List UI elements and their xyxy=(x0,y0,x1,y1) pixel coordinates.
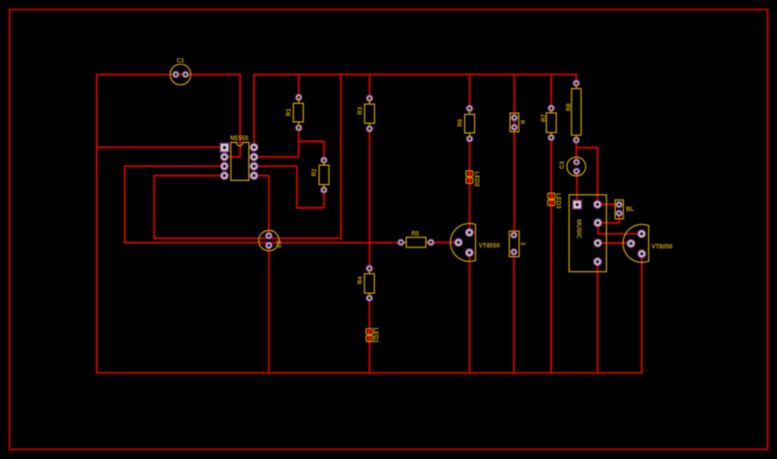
resistor R5 xyxy=(398,231,434,247)
wire R6 top to bus xyxy=(469,75,471,109)
pin 3 xyxy=(594,219,602,227)
resistor R4 xyxy=(358,265,374,301)
wire NE555 pin7 to R1 bottom xyxy=(254,128,299,157)
wire MOSC pad1 to BL top pad xyxy=(598,203,620,205)
svg-text:R3: R3 xyxy=(358,106,364,114)
wire NE555 pin5 to C2 top pad xyxy=(254,176,269,236)
resistor R7 xyxy=(542,105,557,140)
wire R8 bottom to C3 top pad xyxy=(575,140,577,162)
svg-text:VT8550: VT8550 xyxy=(479,243,501,249)
pin 8 xyxy=(250,144,258,152)
wire 3 bottom pad to bottom bus xyxy=(513,252,515,373)
wire NE555 pin4 loop to C2 top line and riser to top bus xyxy=(154,75,341,239)
pin square xyxy=(573,201,581,209)
wire VT8550 emitter to bottom bus xyxy=(469,253,471,373)
svg-text:R1: R1 xyxy=(286,108,292,116)
svg-text:BL: BL xyxy=(626,207,634,213)
resistor R3 xyxy=(358,95,374,132)
wire MOSC pad3 to VT8050 left pad xyxy=(598,242,631,244)
pin 6 xyxy=(250,162,258,170)
svg-text:MUSIC: MUSIC xyxy=(575,219,581,239)
wire branch R1 bottom to R2 top xyxy=(299,141,324,160)
wire NE555 pin6 to R2 bottom xyxy=(254,166,324,208)
resistor R8 xyxy=(567,80,582,143)
svg-text:VT8050: VT8050 xyxy=(652,245,674,251)
LED LED2 xyxy=(466,171,479,188)
svg-text:NE555: NE555 xyxy=(230,136,249,142)
pin 3 xyxy=(221,162,229,170)
wire MOSC pad2 to VT8050 base xyxy=(598,223,642,234)
wire vcc drop into NE555 pin2 row xyxy=(224,75,240,157)
svg-text:K: K xyxy=(519,120,525,125)
wire R3 top to bus xyxy=(369,75,371,99)
pin 4 xyxy=(594,239,602,247)
wire BL bottom pad to MOSC pad2 xyxy=(598,213,619,223)
jumper 3 xyxy=(509,231,525,257)
pin 2 xyxy=(594,201,602,209)
pin 4 xyxy=(221,172,229,180)
wire NE555 pin3 to C2 bottom pad and R5 left pad xyxy=(125,166,401,242)
wire C3 bottom to MOSC square pad xyxy=(576,171,578,204)
connector K xyxy=(510,113,525,132)
resistor R1 xyxy=(286,94,303,130)
svg-text:R5: R5 xyxy=(411,231,419,237)
wire branch R8 bottom to MOSC pad1 xyxy=(576,148,597,205)
svg-text:LED3: LED3 xyxy=(555,193,561,209)
wire MOSC pad4 to bottom bus xyxy=(597,262,599,373)
svg-text:R2: R2 xyxy=(312,168,318,176)
wire R1 top to bus xyxy=(298,75,300,98)
svg-text:R7: R7 xyxy=(542,114,548,122)
transistor Q2 VT8050 xyxy=(623,224,673,262)
pin 1 xyxy=(220,144,228,152)
wire C2 bottom pad to bottom bus xyxy=(268,245,270,372)
svg-text:R8: R8 xyxy=(567,103,573,111)
svg-text:C1: C1 xyxy=(177,59,185,65)
wire GND rail: top-left bus, left rail, bottom bus, right end up to VT8050 emitter xyxy=(97,75,642,373)
pin 5 xyxy=(250,172,258,180)
wire R4 bottom through LED1 to bottom bus xyxy=(368,298,370,373)
svg-text:LED1: LED1 xyxy=(372,328,378,344)
wire R6 bottom through LED2 to VT8550 collector xyxy=(469,139,471,233)
pin 2 xyxy=(221,153,229,161)
wire NE555 pin1 to left rail xyxy=(97,146,225,148)
resistor R2 xyxy=(312,157,329,193)
svg-text:R4: R4 xyxy=(358,276,364,284)
capacitor C3 xyxy=(560,157,586,176)
capacitor C2 xyxy=(259,230,281,250)
svg-text:C3: C3 xyxy=(560,161,566,169)
wire K column from bus through K pads to 3 top pad xyxy=(513,75,515,236)
LED LED3 xyxy=(548,193,561,209)
wire R3 bottom to R4 top xyxy=(369,129,371,269)
wire NE555 pin8 riser and top bus segment 2 to R8 top xyxy=(254,75,576,148)
wire R5 right pad to VT8550 base xyxy=(431,242,459,244)
IC MUSIC chip MOSC xyxy=(569,195,606,272)
svg-text:LED2: LED2 xyxy=(473,172,479,188)
svg-text:C2: C2 xyxy=(274,240,280,248)
svg-text:R6: R6 xyxy=(458,118,464,126)
wire R7 top to bus xyxy=(550,75,552,109)
buzzer BL xyxy=(615,200,634,219)
transistor Q1 VT8550 xyxy=(450,223,500,261)
wire R7 bottom through LED3 to bottom bus xyxy=(550,138,552,373)
pin 5 xyxy=(594,258,602,266)
LED LED1 xyxy=(366,328,378,344)
capacitor C1 xyxy=(170,59,191,85)
pin 7 xyxy=(250,153,258,161)
resistor R6 xyxy=(458,105,475,141)
op-amp U1 NE555 xyxy=(220,136,257,180)
